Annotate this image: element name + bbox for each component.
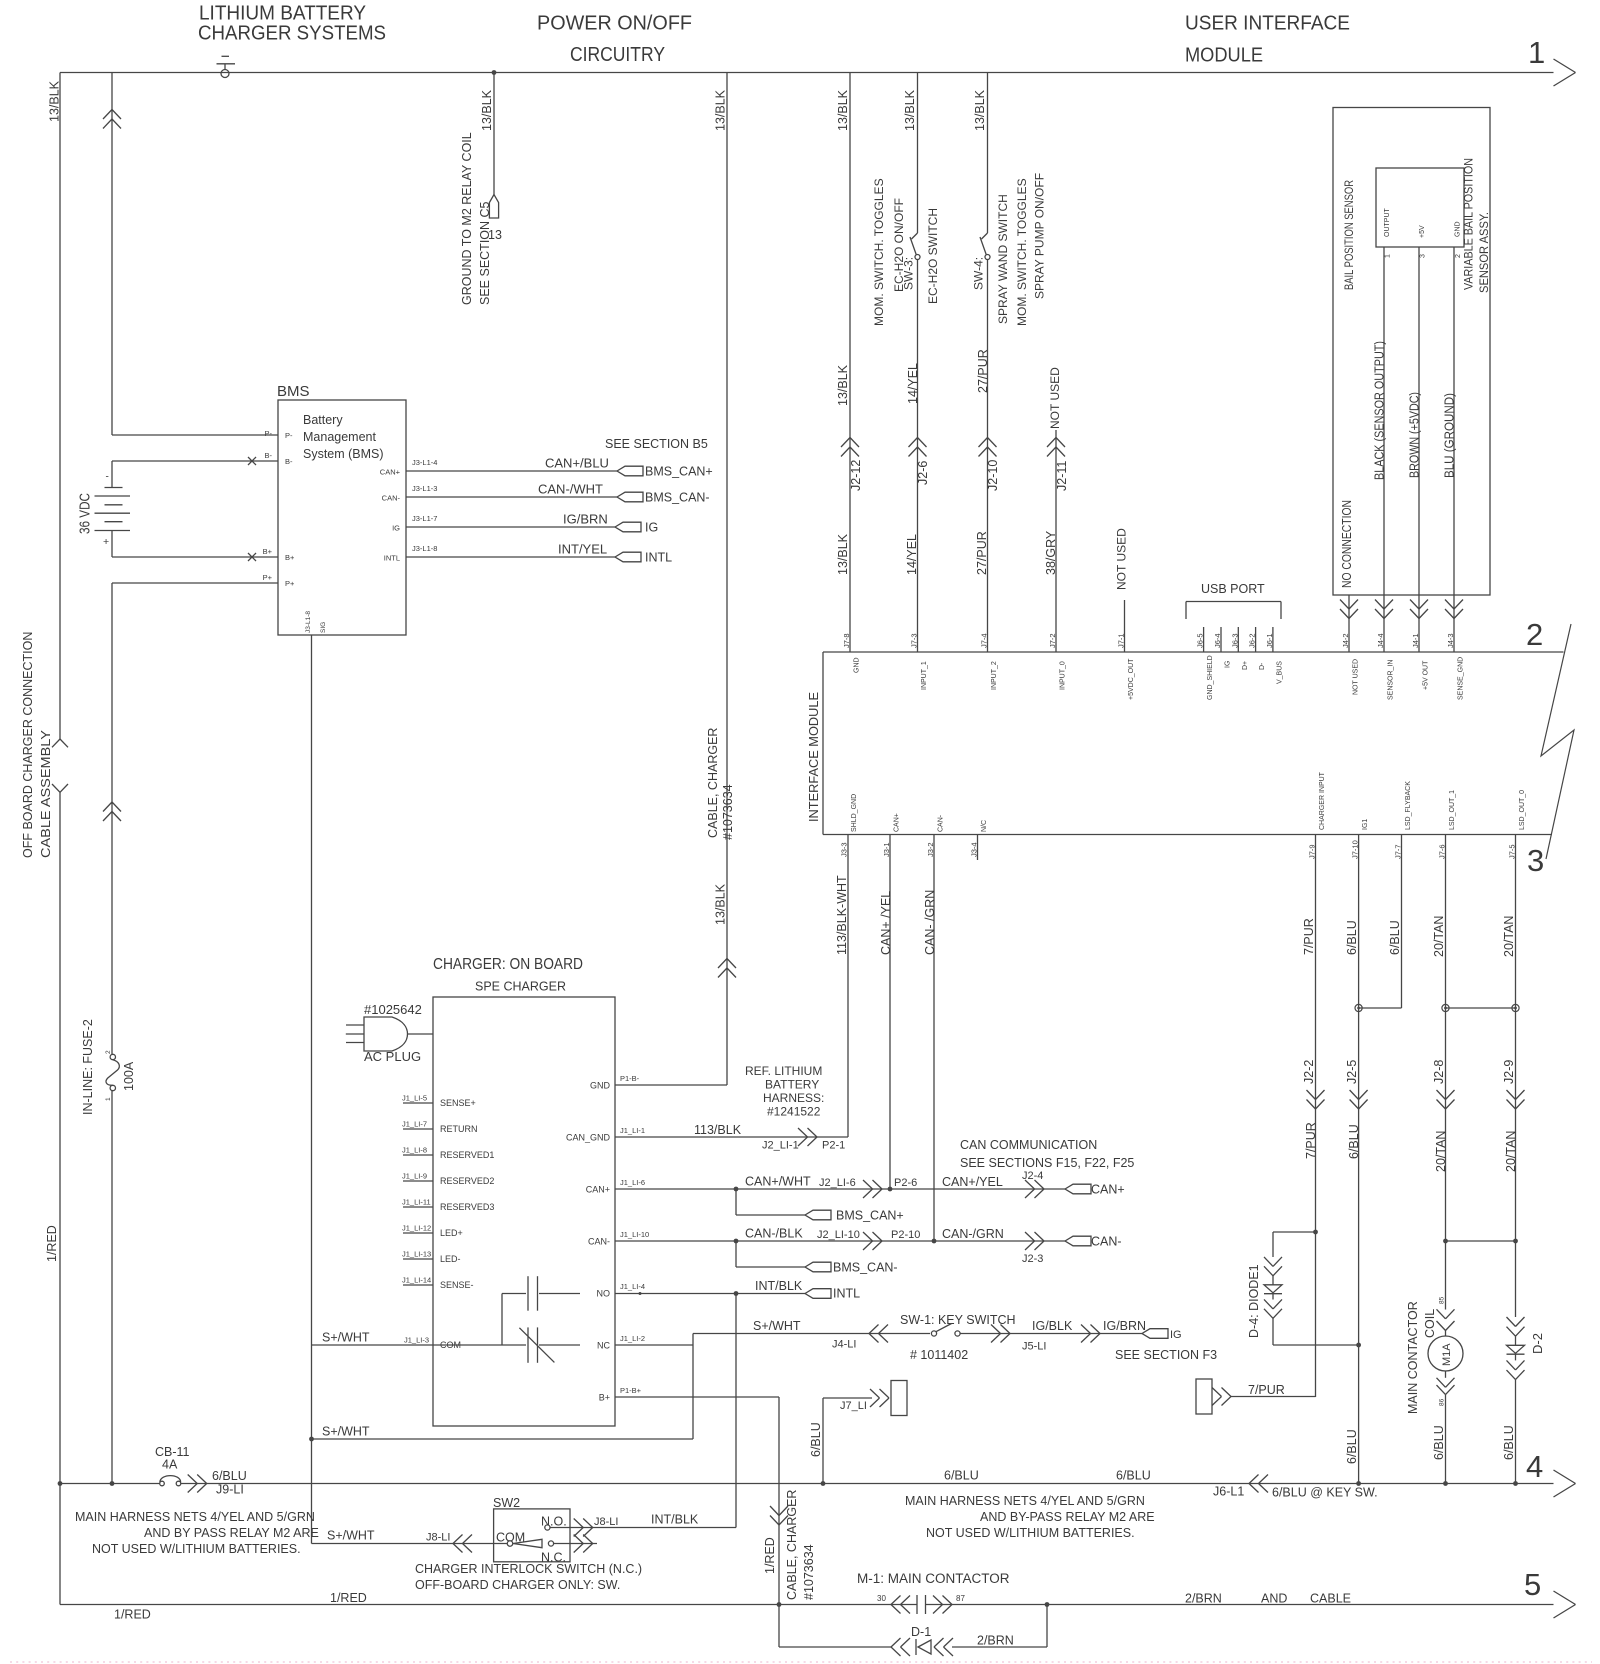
svg-text:MAIN CONTACTOR: MAIN CONTACTOR: [1406, 1301, 1420, 1414]
svg-text:CHARGER INTERLOCK SWITCH (N.C.: CHARGER INTERLOCK SWITCH (N.C.): [415, 1562, 642, 1576]
svg-text:6/BLU: 6/BLU: [1432, 1425, 1446, 1460]
wire P-: [112, 434, 278, 436]
svg-text:+5VDC_OUT: +5VDC_OUT: [1128, 658, 1135, 700]
svg-text:RETURN: RETURN: [440, 1124, 478, 1134]
wire 14/YEL: [917, 260, 919, 653]
wire BLU ground: [1453, 247, 1455, 652]
svg-text:J1_LI-7: J1_LI-7: [402, 1120, 427, 1129]
node top bus - gnd drop: [492, 70, 497, 75]
USB bracket: [1186, 601, 1281, 603]
svg-text:J7-4: J7-4: [980, 633, 989, 648]
svg-text:SHLD_GND: SHLD_GND: [851, 794, 858, 832]
wire B+ P1-B+: [615, 1396, 779, 1398]
svg-text:RESERVED3: RESERVED3: [440, 1202, 494, 1212]
svg-text:J2_LI-10: J2_LI-10: [817, 1229, 860, 1241]
svg-text:INPUT_1: INPUT_1: [921, 661, 928, 690]
AC plug symbol: [364, 1017, 408, 1051]
svg-text:1/RED: 1/RED: [45, 1225, 59, 1262]
svg-text:J1_LI-2: J1_LI-2: [620, 1334, 645, 1343]
svg-text:J2-9: J2-9: [1502, 1060, 1516, 1084]
svg-text:OFF-BOARD CHARGER ONLY: SW.: OFF-BOARD CHARGER ONLY: SW.: [415, 1578, 620, 1592]
wire 27/PUR: [987, 260, 989, 653]
svg-text:MODULE: MODULE: [1185, 45, 1263, 67]
svg-text:J1_LI-4: J1_LI-4: [620, 1282, 645, 1291]
svg-text:BLACK (SENSOR OUTPUT): BLACK (SENSOR OUTPUT): [1373, 341, 1387, 480]
svg-text:SW-4:: SW-4:: [972, 257, 986, 290]
svg-text:J6-5: J6-5: [1196, 633, 1205, 648]
wire lsd link y1008: [1446, 1007, 1516, 1009]
node bus x60: [58, 1481, 63, 1486]
svg-text:GND_SHIELD: GND_SHIELD: [1207, 655, 1214, 700]
connector chevrons J2-3: [1035, 1232, 1045, 1241]
svg-text:AND BY PASS RELAY M2 ARE: AND BY PASS RELAY M2 ARE: [144, 1526, 319, 1540]
switch SW2 box: [494, 1509, 570, 1562]
node bus x112: [110, 1481, 115, 1486]
wire NC row: [615, 1344, 693, 1346]
svg-text:J6-1: J6-1: [1265, 633, 1274, 648]
charger pin J1_LI-7 RETURN: [403, 1128, 433, 1130]
pin J6-5 GND_SHIELD: [1203, 627, 1205, 652]
svg-text:J8-LI: J8-LI: [594, 1516, 618, 1528]
svg-text:CAN_GND: CAN_GND: [566, 1133, 611, 1143]
svg-text:CAN+ /YEL: CAN+ /YEL: [879, 891, 893, 955]
svg-text:6/BLU: 6/BLU: [1116, 1469, 1151, 1483]
wire B+: [112, 556, 278, 558]
svg-text:7/PUR: 7/PUR: [1304, 1122, 1318, 1159]
svg-text:CAN-: CAN-: [382, 494, 401, 503]
svg-text:J2-10: J2-10: [986, 460, 1000, 491]
svg-text:D-: D-: [1259, 662, 1266, 670]
svg-text:J2_LI-6: J2_LI-6: [819, 1177, 856, 1189]
wire SW-1 to IG: [960, 1333, 1142, 1335]
svg-text:LSD_FLYBACK: LSD_FLYBACK: [1405, 781, 1412, 830]
svg-text:SEE SECTION B5: SEE SECTION B5: [605, 437, 708, 451]
svg-text:SW-3:: SW-3:: [902, 257, 916, 290]
svg-text:1/RED: 1/RED: [330, 1591, 367, 1605]
svg-text:85: 85: [1439, 1296, 1446, 1304]
wire coil link y1241: [1446, 1240, 1516, 1242]
svg-text:13/BLK: 13/BLK: [973, 89, 987, 131]
svg-text:J6-L1: J6-L1: [1213, 1485, 1244, 1499]
svg-text:J2-5: J2-5: [1345, 1060, 1359, 1084]
svg-text:D-4: DIODE1: D-4: DIODE1: [1247, 1264, 1261, 1338]
wire SW2 NO out: [550, 1527, 736, 1529]
switch SW-4: [982, 233, 988, 239]
svg-text:P+: P+: [285, 579, 295, 588]
svg-text:IG: IG: [645, 521, 658, 535]
wire INT/BLK vertical: [735, 1294, 737, 1528]
svg-text:6/BLU: 6/BLU: [1345, 1429, 1359, 1464]
svg-text:MOM. SWITCH. TOGGLES: MOM. SWITCH. TOGGLES: [872, 178, 886, 326]
node S+/WHT mid: [309, 1437, 314, 1442]
svg-text:13/BLK: 13/BLK: [836, 533, 850, 575]
diode D-2: [1507, 1345, 1525, 1353]
svg-text:2: 2: [1455, 254, 1462, 258]
wire J3-4 N/C stub: [977, 835, 979, 861]
svg-text:M1A: M1A: [1441, 1343, 1453, 1366]
svg-text:IG/BLK: IG/BLK: [1032, 1319, 1073, 1333]
coil M1A: [1428, 1336, 1463, 1371]
wire 6/BLU J7-7 flyback: [1401, 835, 1403, 1009]
svg-text:CAN-/WHT: CAN-/WHT: [538, 482, 603, 497]
svg-text:20/TAN: 20/TAN: [1504, 1131, 1518, 1172]
connector chevrons J2-10: [979, 438, 988, 448]
fuse FUSE-2 100A: [110, 1054, 115, 1059]
wire INT/BLK row: [615, 1293, 805, 1295]
svg-text:B+: B+: [285, 553, 295, 562]
svg-text:USER INTERFACE: USER INTERFACE: [1185, 13, 1350, 35]
connector chevrons IG/BRN: [1091, 1325, 1101, 1334]
splice X on B+: [248, 553, 256, 561]
svg-text:NOT USED: NOT USED: [1115, 528, 1129, 590]
connector CAN+: [1065, 1184, 1091, 1194]
svg-text:#1073634: #1073634: [802, 1544, 816, 1600]
svg-text:SEE SECTION F3: SEE SECTION F3: [1115, 1348, 1217, 1362]
svg-text:2/BRN: 2/BRN: [1185, 1592, 1222, 1606]
svg-text:J9-LI: J9-LI: [216, 1483, 244, 1497]
wire coil to bus: [1445, 1371, 1447, 1378]
svg-text:CAN-: CAN-: [938, 814, 945, 832]
charger pin J1_LI-12 LED+: [403, 1232, 433, 1234]
svg-text:BMS_CAN-: BMS_CAN-: [645, 491, 710, 505]
svg-text:B+: B+: [263, 547, 273, 556]
wire COM row: [312, 1344, 434, 1346]
svg-text:CABLE ASSEMBLY: CABLE ASSEMBLY: [39, 729, 53, 858]
connector chevrons 1/RED x779: [770, 1506, 779, 1516]
svg-text:INT/BLK: INT/BLK: [651, 1513, 699, 1527]
connector break chevrons x60: [52, 739, 60, 747]
svg-text:IG: IG: [392, 524, 400, 533]
svg-text:NOT USED W/LITHIUM BATTERIES.: NOT USED W/LITHIUM BATTERIES.: [926, 1526, 1135, 1540]
svg-text:J7-2: J7-2: [1048, 633, 1057, 648]
svg-text:6/BLU: 6/BLU: [1345, 920, 1359, 955]
svg-text:2/BRN: 2/BRN: [977, 1634, 1014, 1648]
svg-text:BATTERY: BATTERY: [765, 1078, 819, 1092]
svg-text:IG/BRN: IG/BRN: [1103, 1319, 1146, 1333]
svg-text:CAN+: CAN+: [586, 1185, 610, 1195]
svg-text:J3-L1-8: J3-L1-8: [412, 544, 437, 553]
svg-text:#1241522: #1241522: [767, 1105, 821, 1119]
svg-text:J1_LI-1: J1_LI-1: [620, 1126, 645, 1135]
svg-text:6/BLU: 6/BLU: [1502, 1425, 1516, 1460]
svg-text:J6-3: J6-3: [1230, 633, 1239, 648]
svg-text:P-: P-: [265, 429, 273, 438]
net 5 arrow: [1554, 1591, 1576, 1605]
svg-text:INT/YEL: INT/YEL: [558, 542, 607, 557]
wire BMS_CAN+ branch: [735, 1189, 737, 1215]
svg-text:Battery: Battery: [303, 413, 343, 427]
connector CAN-: [1065, 1236, 1091, 1246]
contact M-1: [891, 1596, 901, 1605]
svg-text:P2-10: P2-10: [891, 1229, 920, 1241]
svg-text:1/RED: 1/RED: [763, 1537, 777, 1574]
svg-text:BAIL POSITION SENSOR: BAIL POSITION SENSOR: [1342, 180, 1356, 290]
connector chevrons 7/PUR: [1222, 1388, 1232, 1397]
node INT/BLK branch: [734, 1291, 739, 1296]
svg-text:20/TAN: 20/TAN: [1432, 916, 1446, 957]
wire 38/GRY J2-11: [1055, 430, 1057, 652]
pin J6-4 IG: [1220, 627, 1222, 652]
wire 20/TAN J7-6: [1445, 835, 1447, 1310]
svg-text:BMS_CAN-: BMS_CAN-: [833, 1261, 898, 1275]
wire 13/BLK x727: [726, 73, 728, 1086]
connector rect J7_LI: [891, 1381, 907, 1416]
svg-text:VARIABLE BAIL POSITION: VARIABLE BAIL POSITION: [1462, 158, 1476, 290]
svg-text:J6-4: J6-4: [1213, 633, 1222, 648]
wire 6/BLU J7-10: [1358, 835, 1360, 1484]
svg-text:BMS_CAN+: BMS_CAN+: [836, 1209, 904, 1223]
battery 36VDC: [105, 487, 123, 489]
connector chevrons J2-9: [1507, 1090, 1516, 1100]
wire IG/BRN: [406, 526, 615, 528]
svg-text:113/BLK: 113/BLK: [694, 1123, 742, 1137]
connector chevrons J2-6: [909, 438, 918, 448]
svg-text:System (BMS): System (BMS): [303, 447, 384, 461]
wire 13/BLK-1/RED left vertical: [59, 73, 61, 740]
connector BMS_CAN+ out: [617, 466, 643, 476]
svg-text:SPRAY PUMP ON/OFF: SPRAY PUMP ON/OFF: [1033, 173, 1047, 299]
wire 6/BLU J7_LI: [823, 1397, 872, 1399]
svg-text:3: 3: [1420, 254, 1427, 258]
svg-text:20/TAN: 20/TAN: [1434, 1131, 1448, 1172]
svg-text:+: +: [103, 536, 109, 548]
node D-1 join: [1045, 1602, 1050, 1607]
svg-text:CAN+: CAN+: [1091, 1183, 1125, 1197]
svg-text:J1_LI-6: J1_LI-6: [620, 1178, 645, 1187]
connector chevrons SW2 NO: [583, 1519, 593, 1528]
svg-text:P2-6: P2-6: [894, 1177, 917, 1189]
breaker CB-11 4A: [160, 1481, 165, 1486]
wire S+/WHT to key switch: [693, 1333, 930, 1335]
svg-text:CAN- /GRN: CAN- /GRN: [923, 890, 937, 955]
svg-text:1: 1: [1385, 254, 1392, 258]
charger box: [433, 997, 615, 1426]
svg-text:Management: Management: [303, 430, 376, 444]
svg-text:P1-B+: P1-B+: [620, 1386, 642, 1395]
connector chevrons J5-LI: [1001, 1325, 1011, 1334]
svg-text:GND: GND: [854, 657, 861, 673]
bus 6/BLU: [60, 1483, 160, 1485]
svg-text:REF. LITHIUM: REF. LITHIUM: [745, 1064, 822, 1078]
wire S+/WHT vertical x693: [692, 1334, 694, 1440]
svg-text:7/PUR: 7/PUR: [1302, 918, 1316, 955]
svg-text:CAN COMMUNICATION: CAN COMMUNICATION: [960, 1138, 1097, 1152]
svg-text:6/BLU: 6/BLU: [809, 1422, 823, 1457]
svg-text:SENSOR_IN: SENSOR_IN: [1388, 660, 1395, 700]
svg-text:CAN-/GRN: CAN-/GRN: [942, 1227, 1004, 1241]
svg-text:GND: GND: [590, 1081, 611, 1091]
svg-text:V_BUS: V_BUS: [1276, 661, 1283, 684]
charger pin J1_LI-13 LED-: [403, 1258, 433, 1260]
connector chevrons J2-2: [1307, 1090, 1316, 1100]
svg-text:J2-6: J2-6: [916, 461, 930, 485]
svg-text:INTL: INTL: [645, 551, 672, 565]
svg-text:13/BLK: 13/BLK: [480, 89, 494, 131]
connector chevrons J9-LI: [197, 1475, 207, 1484]
wire INT/YEL: [406, 556, 615, 558]
svg-text:LSD_OUT_0: LSD_OUT_0: [1519, 790, 1526, 830]
svg-text:86: 86: [1439, 1398, 1446, 1406]
node bus x1445: [1443, 1481, 1448, 1486]
svg-text:CABLE: CABLE: [1310, 1592, 1351, 1606]
svg-text:OFF BOARD CHARGER CONNECTION: OFF BOARD CHARGER CONNECTION: [21, 632, 35, 858]
charger pin J1_LI-14 SENSE-: [403, 1284, 433, 1286]
svg-text:CAN-/BLK: CAN-/BLK: [745, 1227, 803, 1241]
internal NC contact: [433, 1344, 526, 1346]
connector INTL out: [615, 552, 641, 562]
svg-text:IG/BRN: IG/BRN: [563, 512, 608, 527]
svg-text:B+: B+: [599, 1393, 610, 1403]
wire SW-3 top: [917, 73, 919, 234]
svg-text:N/C: N/C: [981, 820, 988, 832]
wire 1/RED bottom: [60, 1604, 917, 1606]
wire CAN_GND 113/BLK: [615, 1136, 848, 1138]
wire CAN-/GRN vertical: [933, 835, 935, 1242]
svg-text:+5V OUT: +5V OUT: [1423, 660, 1430, 690]
svg-text:CAN+: CAN+: [894, 813, 901, 832]
connector chevrons x112 top: [103, 110, 112, 120]
wire S+/WHT mid: [312, 1438, 694, 1440]
svg-text:BLU (GROUND): BLU (GROUND): [1443, 393, 1457, 478]
connector chevrons J2-8: [1437, 1090, 1446, 1100]
svg-text:CHARGER INPUT: CHARGER INPUT: [1319, 771, 1326, 830]
svg-text:P2-1: P2-1: [822, 1140, 845, 1152]
svg-text:J1_LI-14: J1_LI-14: [402, 1276, 431, 1285]
diode D-1: [891, 1638, 901, 1647]
svg-text:GND: GND: [1455, 221, 1462, 237]
svg-text:3: 3: [1527, 843, 1544, 878]
svg-text:BMS_CAN+: BMS_CAN+: [645, 465, 713, 479]
svg-text:HARNESS:: HARNESS:: [763, 1091, 824, 1105]
svg-text:CAN+/BLU: CAN+/BLU: [545, 456, 609, 471]
svg-text:CAN+/WHT: CAN+/WHT: [745, 1175, 811, 1189]
svg-text:IG: IG: [1170, 1329, 1182, 1341]
wire 13/BLK x850: [849, 73, 851, 653]
connector chevrons J4-2: [1340, 600, 1349, 610]
svg-text:LSD_OUT_1: LSD_OUT_1: [1449, 790, 1456, 830]
svg-text:MOM. SWITCH. TOGGLES: MOM. SWITCH. TOGGLES: [1015, 178, 1029, 326]
svg-text:J3-L1-4: J3-L1-4: [412, 458, 437, 467]
svg-text:LED+: LED+: [440, 1228, 463, 1238]
wire 13/BLK x112 to P-: [111, 73, 113, 436]
svg-text:SEE SECTION C5: SEE SECTION C5: [478, 201, 492, 305]
svg-text:MAIN HARNESS NETS 4/YEL AND 5/: MAIN HARNESS NETS 4/YEL AND 5/GRN: [75, 1510, 315, 1524]
svg-text:6/BLU: 6/BLU: [1347, 1124, 1361, 1159]
svg-text:BROWN (+5VDC): BROWN (+5VDC): [1408, 392, 1422, 478]
svg-text:SENSE-: SENSE-: [440, 1280, 474, 1290]
interface module box: [823, 651, 1564, 653]
connector INTL: [805, 1289, 831, 1299]
svg-text:AND: AND: [1261, 1592, 1287, 1606]
wire CAN-/WHT: [406, 496, 617, 498]
svg-text:5: 5: [1524, 1567, 1541, 1602]
wire D-1 branch: [779, 1646, 891, 1648]
wire SW-4 top: [987, 73, 989, 234]
svg-text:CHARGER SYSTEMS: CHARGER SYSTEMS: [198, 23, 386, 45]
svg-text:J1_LI-3: J1_LI-3: [404, 1336, 429, 1345]
switch SW-1 key switch: [931, 1331, 936, 1336]
svg-text:EC-H2O SWITCH: EC-H2O SWITCH: [926, 208, 940, 304]
wire J7-1 stub: [1124, 600, 1126, 652]
svg-text:MAIN HARNESS NETS 4/YEL AND 5/: MAIN HARNESS NETS 4/YEL AND 5/GRN: [905, 1494, 1145, 1508]
svg-text:J3-L1-8: J3-L1-8: [305, 611, 312, 633]
wire CAN- row: [615, 1240, 1065, 1242]
net 4 arrow: [1554, 1470, 1576, 1484]
svg-text:SENSOR ASSY.: SENSOR ASSY.: [1477, 212, 1491, 293]
connector chevrons SW2 NC: [583, 1535, 593, 1544]
svg-text:J1_LI-12: J1_LI-12: [402, 1224, 431, 1233]
connector chevrons x727: [718, 959, 727, 969]
wire NO CONNECTION J4-2: [1348, 595, 1350, 652]
wire D-4 top: [1273, 1231, 1316, 1233]
svg-text:# 1011402: # 1011402: [910, 1348, 968, 1362]
svg-text:SENSE+: SENSE+: [440, 1098, 476, 1108]
svg-text:J7-3: J7-3: [910, 633, 919, 648]
svg-text:-: -: [106, 472, 109, 483]
svg-text:SW-1: KEY SWITCH: SW-1: KEY SWITCH: [900, 1313, 1016, 1327]
svg-text:CHARGER: ON BOARD: CHARGER: ON BOARD: [433, 956, 583, 973]
svg-text:J7-8: J7-8: [842, 633, 851, 648]
svg-text:6/BLU: 6/BLU: [944, 1469, 979, 1483]
svg-text:P-: P-: [285, 431, 293, 440]
svg-text:6/BLU: 6/BLU: [1388, 920, 1402, 955]
svg-text:14/YEL: 14/YEL: [905, 534, 919, 575]
svg-text:J3-L1-3: J3-L1-3: [412, 484, 437, 493]
wire BROWN +5VDC: [1418, 247, 1420, 652]
svg-text:COIL: COIL: [1423, 1309, 1437, 1338]
connector BMS_CAN-: [805, 1262, 831, 1272]
svg-text:J2-12: J2-12: [849, 460, 863, 491]
diode D-4 chevrons bottom: [1264, 1299, 1273, 1309]
charger pin J1_LI-11 RESERVED3: [403, 1206, 433, 1208]
connector chevrons J6-L1: [1249, 1475, 1259, 1484]
svg-text:4: 4: [1526, 1449, 1543, 1484]
svg-text:J2-8: J2-8: [1432, 1060, 1446, 1084]
connector 13 to M2 relay: [489, 195, 498, 219]
svg-text:P+: P+: [263, 573, 273, 582]
svg-text:NC: NC: [597, 1341, 610, 1351]
svg-text:SPE CHARGER: SPE CHARGER: [475, 980, 566, 994]
svg-text:D-2: D-2: [1530, 1333, 1545, 1354]
svg-text:2: 2: [105, 1050, 112, 1054]
node bus x823: [821, 1481, 826, 1486]
break lightning bolt: [1541, 624, 1574, 859]
svg-text:7/PUR: 7/PUR: [1248, 1383, 1285, 1397]
connector chevrons J2-4: [1035, 1180, 1045, 1189]
wire SIG vertical: [311, 635, 313, 1544]
svg-text:B-: B-: [285, 457, 293, 466]
wire BMS_CAN- branch: [735, 1241, 737, 1267]
coil M1A chevrons bottom: [1437, 1378, 1446, 1388]
svg-text:CIRCUITRY: CIRCUITRY: [570, 44, 665, 66]
svg-text:S+/WHT: S+/WHT: [322, 1331, 370, 1345]
connector IG: [1142, 1329, 1168, 1339]
charger pin J1_LI-8 RESERVED1: [403, 1154, 433, 1156]
svg-text:J1_LI-11: J1_LI-11: [402, 1198, 431, 1207]
svg-text:NOT USED: NOT USED: [1353, 659, 1360, 695]
svg-text:1: 1: [105, 1097, 112, 1101]
wire 13/BLK gnd drop: [493, 73, 495, 195]
svg-text:J2-11: J2-11: [1055, 461, 1069, 491]
svg-text:6/BLU @ KEY SW.: 6/BLU @ KEY SW.: [1272, 1486, 1378, 1500]
node flyback join: [1355, 1004, 1362, 1011]
svg-text:30: 30: [877, 1594, 886, 1603]
switch SW-3: [912, 233, 918, 239]
node CAN- branch: [734, 1239, 739, 1244]
svg-text:J7_LI: J7_LI: [840, 1400, 867, 1412]
svg-text:GROUND TO M2 RELAY COIL: GROUND TO M2 RELAY COIL: [460, 132, 474, 305]
svg-text:14/YEL: 14/YEL: [906, 363, 920, 404]
